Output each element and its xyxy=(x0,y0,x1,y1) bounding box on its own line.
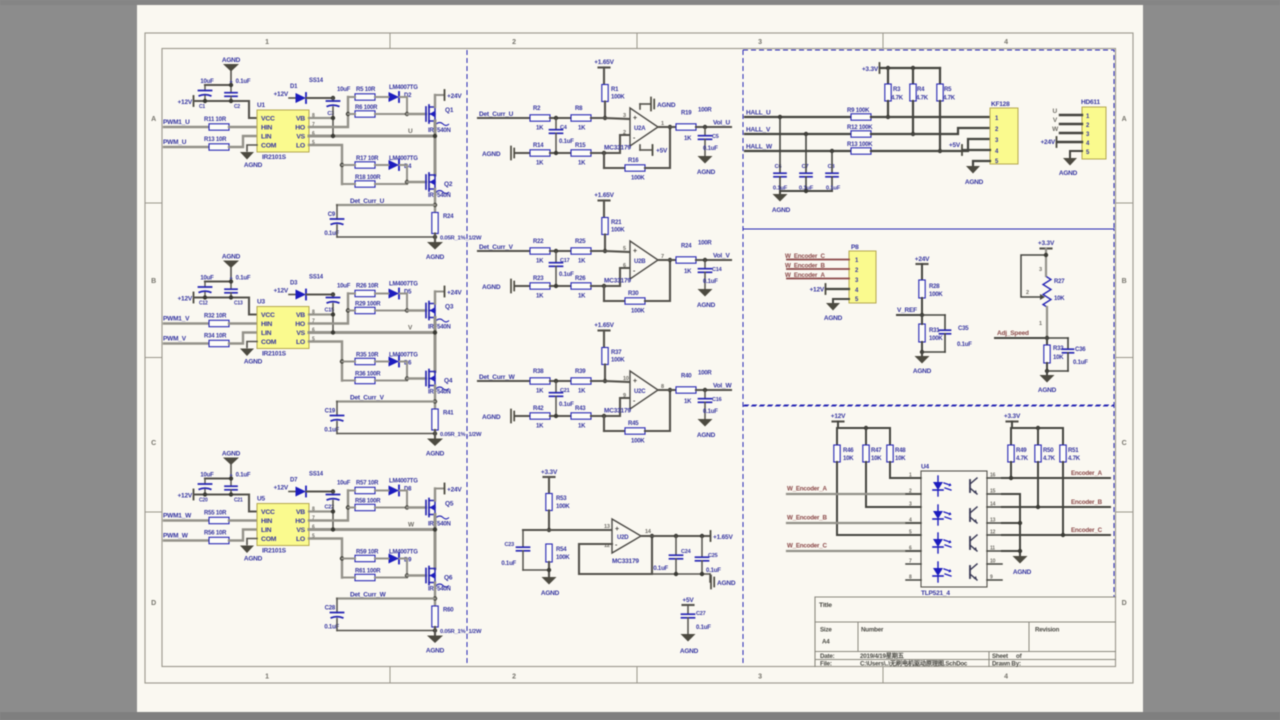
svg-text:15: 15 xyxy=(990,489,996,495)
wire (to op-amp +input) xyxy=(591,118,630,119)
svg-text:C1: C1 xyxy=(199,104,205,110)
svg-text:PWM_W: PWM_W xyxy=(163,533,189,540)
diode D6 LM4007TG (low side) xyxy=(375,353,418,381)
capacitor C2 0.1uF xyxy=(225,79,251,110)
svg-text:+12V: +12V xyxy=(273,288,288,295)
svg-text:0.1uF: 0.1uF xyxy=(703,146,718,152)
svg-text:10K: 10K xyxy=(843,456,854,462)
wire (phase node VS) xyxy=(309,515,437,569)
resistor R51 4.7K xyxy=(1060,445,1081,462)
svg-text:Q3: Q3 xyxy=(445,304,454,311)
capacitor C27 0.1uF xyxy=(682,611,712,634)
svg-text:IRF540N: IRF540N xyxy=(428,390,451,396)
svg-text:2: 2 xyxy=(512,39,516,46)
title block text Title xyxy=(819,602,832,609)
svg-text:10uF: 10uF xyxy=(200,276,214,282)
wire (R48 to opto pin1) xyxy=(890,462,921,478)
svg-text:HIN: HIN xyxy=(261,518,272,525)
svg-text:+12V: +12V xyxy=(809,287,824,294)
capacitor C14 0.1uF (output filter) xyxy=(699,260,723,289)
power port +1.65V (bias R21) xyxy=(594,192,614,218)
resistor R55 10R xyxy=(204,511,229,524)
port AGND (cap return) xyxy=(711,576,736,589)
svg-text:R47: R47 xyxy=(871,448,882,454)
capacitor C15 10uF (bootstrap) xyxy=(325,284,351,314)
net label PWM_V xyxy=(163,336,187,343)
op-amp U2B MC33179 xyxy=(604,241,664,285)
wire (to Q high gate) xyxy=(407,113,426,115)
net label PWM_U xyxy=(163,139,187,146)
op-amp U2D MC33179 (buffer) xyxy=(604,519,652,565)
net label Vol_U xyxy=(713,120,730,127)
svg-text:10: 10 xyxy=(990,559,996,565)
wire (to LIN pin) xyxy=(229,530,257,541)
svg-text:VS: VS xyxy=(296,330,305,337)
svg-text:AGND: AGND xyxy=(913,368,932,375)
svg-text:C35: C35 xyxy=(958,326,969,332)
capacitor C25 0.1uF xyxy=(696,536,722,574)
svg-text:C4: C4 xyxy=(560,125,568,131)
transistor Q4 IRF540N (low side MOSFET) xyxy=(426,370,453,396)
svg-text:C14: C14 xyxy=(712,267,723,273)
title block text Number xyxy=(861,627,884,634)
wire (VB connection) xyxy=(309,107,335,136)
svg-text:C2: C2 xyxy=(234,104,240,110)
title block text Drawn By xyxy=(992,661,1021,668)
resistor R53 100K (divider top) xyxy=(546,494,571,533)
power port +24V xyxy=(435,484,462,501)
svg-text:U: U xyxy=(408,128,413,135)
svg-text:R4: R4 xyxy=(917,87,925,93)
svg-text:10uF: 10uF xyxy=(337,87,351,93)
transistor Q1 IRF540N (high side MOSFET) xyxy=(426,105,454,134)
svg-text:R14: R14 xyxy=(533,143,544,149)
svg-text:VB: VB xyxy=(296,509,305,516)
svg-text:AGND: AGND xyxy=(1013,569,1032,576)
svg-text:PWM1_U: PWM1_U xyxy=(163,119,190,126)
net label PWM1_U xyxy=(163,119,190,126)
port AGND (reference input) xyxy=(482,147,514,160)
svg-text:C16: C16 xyxy=(712,397,722,403)
ground (hall filter AGND) xyxy=(772,191,791,214)
svg-text:C5: C5 xyxy=(712,134,719,140)
svg-text:100K: 100K xyxy=(556,555,570,561)
ground (divider AGND) xyxy=(541,577,560,597)
svg-text:VB: VB xyxy=(296,312,305,319)
transistor Q3 IRF540N (high side MOSFET) xyxy=(426,302,454,331)
svg-text:100K: 100K xyxy=(631,439,645,445)
svg-text:1: 1 xyxy=(909,473,912,479)
wire (encoder B output row) xyxy=(1002,462,1110,509)
power port +12V (bootstrap) xyxy=(273,485,295,492)
svg-text:Revision: Revision xyxy=(1035,627,1060,634)
ground (output filter AGND) xyxy=(697,419,716,439)
svg-text:W_Encoder_C: W_Encoder_C xyxy=(787,543,827,550)
svg-text:R49: R49 xyxy=(1016,448,1027,454)
svg-text:+: + xyxy=(633,115,637,122)
wire (LO to gate network) xyxy=(309,145,344,184)
svg-text:+: + xyxy=(633,378,637,385)
svg-text:1: 1 xyxy=(1039,321,1042,327)
svg-text:4.7K: 4.7K xyxy=(1016,456,1029,462)
power port +12V (opto anode pullups) xyxy=(831,413,846,428)
svg-text:10uF: 10uF xyxy=(337,284,351,290)
wire (bootstrap node) xyxy=(307,96,336,100)
diode D9 LM4007TG (low side) xyxy=(375,550,418,578)
net label HALL_U xyxy=(746,110,771,117)
power port +3.3V (speed pot) xyxy=(1038,240,1055,276)
svg-text:8: 8 xyxy=(909,575,912,581)
svg-text:AGND: AGND xyxy=(697,169,716,176)
svg-text:U: U xyxy=(1053,108,1058,115)
svg-text:2: 2 xyxy=(623,130,626,136)
wire (to summing node) xyxy=(550,379,572,383)
svg-text:R43: R43 xyxy=(575,406,586,412)
svg-text:1K: 1K xyxy=(536,294,544,300)
svg-text:VS: VS xyxy=(296,134,305,141)
svg-text:0.1uF: 0.1uF xyxy=(236,276,251,282)
resistor R46 10K xyxy=(834,445,854,462)
wire (pot to adj node) xyxy=(1045,307,1049,340)
svg-text:R26: R26 xyxy=(575,276,586,282)
svg-text:4.7K: 4.7K xyxy=(1068,456,1081,462)
wire (low source to shunt) xyxy=(433,189,437,212)
capacitor C21 0.1uF (filter) xyxy=(550,381,575,416)
svg-text:PWM1_V: PWM1_V xyxy=(163,316,190,323)
svg-text:7: 7 xyxy=(909,559,912,565)
svg-text:10uF: 10uF xyxy=(200,473,214,479)
svg-text:1K: 1K xyxy=(578,161,586,167)
ground (hall connector AGND) xyxy=(965,161,990,186)
net label Vol_V xyxy=(713,253,730,260)
capacitor C28 0.1uF (sense filter) xyxy=(324,599,343,631)
svg-text:C21: C21 xyxy=(234,498,243,504)
wire (+12V opto rail) xyxy=(837,426,890,445)
svg-text:1K: 1K xyxy=(536,424,544,430)
svg-text:R3: R3 xyxy=(893,87,901,93)
resistor R48 10K xyxy=(887,445,906,462)
svg-text:+1.65V: +1.65V xyxy=(594,59,614,66)
net label PWM1_W xyxy=(163,513,192,520)
svg-text:LM4007TG: LM4007TG xyxy=(389,85,418,91)
resistor R13 10R xyxy=(204,137,229,150)
svg-text:LO: LO xyxy=(296,143,305,150)
title block text Revision xyxy=(1035,627,1060,634)
svg-text:AGND: AGND xyxy=(222,254,241,261)
wire (hall cap return rail) xyxy=(780,189,832,193)
svg-text:R36 100R: R36 100R xyxy=(355,372,381,378)
svg-text:VCC: VCC xyxy=(261,312,275,319)
power port +12V (bootstrap) xyxy=(273,91,295,98)
svg-text:10K: 10K xyxy=(1054,296,1065,302)
resistor R1 100K xyxy=(602,85,626,121)
svg-text:10uF: 10uF xyxy=(200,79,214,85)
svg-text:D: D xyxy=(1122,600,1127,607)
transistor Q6 IRF540N (low side MOSFET) xyxy=(426,567,453,593)
wire (bias top rail) xyxy=(205,477,231,479)
wire (+12V rail to VCC) xyxy=(194,476,257,511)
svg-text:2: 2 xyxy=(909,489,912,495)
svg-text:12: 12 xyxy=(990,530,996,536)
svg-text:C7: C7 xyxy=(802,164,809,170)
dashed border of encoder/speed region xyxy=(743,229,1114,405)
svg-text:MC33179: MC33179 xyxy=(604,408,631,415)
resistor R13 100K xyxy=(847,142,873,154)
svg-text:B: B xyxy=(1122,278,1127,285)
wire (reference row) xyxy=(516,285,530,287)
ground (vref AGND) xyxy=(913,352,932,375)
svg-text:100K: 100K xyxy=(631,176,645,182)
wire xyxy=(550,414,572,418)
capacitor C16 0.1uF (output filter) xyxy=(699,390,722,419)
svg-text:+12V: +12V xyxy=(273,91,288,98)
resistor R50 4.7K xyxy=(1035,445,1056,462)
ground (output filter AGND) xyxy=(697,156,716,176)
svg-text:11: 11 xyxy=(990,546,995,552)
resistor R45 100K (feedback) xyxy=(604,421,645,445)
wire (PWM input 2) xyxy=(164,539,209,541)
ground AGND (driver bias AGND) xyxy=(222,57,241,85)
wire (current sense tap) xyxy=(337,204,435,206)
svg-text:AGND: AGND xyxy=(541,590,560,597)
net label Adj_Speed xyxy=(995,330,1047,338)
wire (VB connection) xyxy=(309,304,335,333)
svg-text:AGND: AGND xyxy=(222,451,241,458)
wire (pot wiper loop) xyxy=(1021,253,1048,327)
svg-text:IRF540N: IRF540N xyxy=(428,193,451,199)
wire (to LIN pin) xyxy=(229,333,257,344)
svg-text:D: D xyxy=(151,600,156,607)
svg-text:R35 10R: R35 10R xyxy=(356,353,379,359)
wire (+12V rail to VCC) xyxy=(194,279,257,314)
svg-text:1K: 1K xyxy=(578,389,586,395)
svg-text:C12: C12 xyxy=(199,301,208,307)
resistor R16 100K (feedback) xyxy=(604,158,645,182)
ground AGND (driver bias AGND) xyxy=(222,451,241,479)
ground (COM pin AGND) xyxy=(240,145,263,169)
svg-text:100K: 100K xyxy=(631,309,645,315)
resistor R25 1K xyxy=(571,239,591,265)
svg-text:R27: R27 xyxy=(1054,279,1065,285)
diode D5 LM4007TG (high side) xyxy=(375,282,418,313)
power port +5V (op-amp V- pin 11) xyxy=(640,145,668,155)
capacitor C24 0.1uF xyxy=(653,536,691,574)
wire (LO to gate network) xyxy=(309,539,344,578)
svg-text:6: 6 xyxy=(909,546,912,552)
svg-text:4.7K: 4.7K xyxy=(891,96,904,102)
svg-text:R51: R51 xyxy=(1068,448,1079,454)
svg-text:AGND: AGND xyxy=(426,451,445,458)
svg-text:Title: Title xyxy=(819,602,832,609)
svg-text:LM4007TG: LM4007TG xyxy=(389,353,418,359)
svg-text:+12V: +12V xyxy=(831,413,846,420)
wire (low source to shunt) xyxy=(433,583,437,606)
wire (to HIN pin) xyxy=(229,126,257,128)
svg-text:Encoder_B: Encoder_B xyxy=(1071,499,1103,506)
wire (to op-amp -input) xyxy=(591,135,630,155)
svg-text:0.1uF: 0.1uF xyxy=(236,79,251,85)
svg-text:KF128: KF128 xyxy=(991,101,1010,108)
svg-text:R61 100R: R61 100R xyxy=(355,569,381,575)
net label Det_Curr_V xyxy=(350,395,385,402)
svg-text:HALL_W: HALL_W xyxy=(746,144,773,151)
wire (sense cap return) xyxy=(337,628,437,632)
svg-text:PWM_V: PWM_V xyxy=(163,336,187,343)
resistor R22 1K xyxy=(530,239,550,265)
svg-text:SS14: SS14 xyxy=(309,472,324,478)
resistor R57 10R (high side gate) xyxy=(348,481,379,494)
net label Encoder_B xyxy=(1071,499,1103,506)
svg-text:R2: R2 xyxy=(533,106,541,112)
net label W (phase wire) xyxy=(1052,126,1082,133)
wire (reference row) xyxy=(516,415,530,417)
svg-text:IRF540N: IRF540N xyxy=(428,522,451,528)
wire (output node) xyxy=(696,258,731,262)
svg-text:U2D: U2D xyxy=(617,535,629,541)
wire (output node) xyxy=(696,125,731,129)
capacitor C23 0.1uF xyxy=(501,530,529,570)
region divider dashed line between column 1 and 2 xyxy=(466,50,468,666)
dashed border of optocoupler region xyxy=(743,406,1114,597)
net label phase V xyxy=(408,325,413,332)
resistor R59 10R (low side gate) xyxy=(342,550,379,562)
net label Det_Curr_W xyxy=(350,592,387,599)
net label HALL_W xyxy=(746,144,773,151)
resistor R15 1K xyxy=(571,143,591,167)
resistor R26 1K xyxy=(571,276,591,300)
svg-text:R16: R16 xyxy=(628,158,639,164)
capacitor C19 0.1uF (sense filter) xyxy=(324,402,343,434)
svg-text:C25: C25 xyxy=(708,553,718,559)
wire (PWM input 1) xyxy=(164,519,209,521)
svg-text:HD611: HD611 xyxy=(1081,99,1100,106)
svg-text:PWM1_W: PWM1_W xyxy=(163,513,192,520)
svg-text:U3: U3 xyxy=(257,299,265,306)
wire (PWM input 2) xyxy=(164,146,209,148)
svg-text:R59 10R: R59 10R xyxy=(356,550,379,556)
svg-text:LM4007TG: LM4007TG xyxy=(389,282,418,288)
svg-text:Drawn By:: Drawn By: xyxy=(992,661,1021,668)
wire (HO to gate network) xyxy=(309,294,350,324)
svg-text:+5V: +5V xyxy=(949,142,961,149)
svg-text:0.1uF: 0.1uF xyxy=(501,561,516,567)
svg-text:R30: R30 xyxy=(628,291,639,297)
svg-text:SS14: SS14 xyxy=(309,78,324,84)
wire (to HIN pin) xyxy=(229,322,257,324)
net label W_Encoder_B xyxy=(785,263,849,270)
svg-text:100K: 100K xyxy=(611,228,625,234)
svg-text:1: 1 xyxy=(265,39,269,46)
svg-text:R13 10R: R13 10R xyxy=(204,137,227,143)
svg-text:C28: C28 xyxy=(325,606,336,612)
svg-text:R31: R31 xyxy=(929,328,940,334)
svg-text:0.1uF: 0.1uF xyxy=(706,568,721,574)
svg-text:+24V: +24V xyxy=(1040,139,1055,146)
svg-text:IRF540N: IRF540N xyxy=(428,587,451,593)
svg-text:AGND: AGND xyxy=(697,302,716,309)
svg-text:AGND: AGND xyxy=(717,580,736,587)
net label phase W xyxy=(408,522,415,529)
svg-text:C17: C17 xyxy=(560,258,570,264)
svg-text:C19: C19 xyxy=(325,409,336,415)
svg-text:Encoder_C: Encoder_C xyxy=(1071,527,1103,534)
net label Encoder_A xyxy=(1071,470,1103,477)
wire (feedback left leg) xyxy=(603,153,605,168)
svg-text:Vol_W: Vol_W xyxy=(713,383,732,390)
resistor R36 100R (low side gate) xyxy=(342,372,407,384)
wire (to summing node) xyxy=(550,116,572,120)
svg-text:14: 14 xyxy=(990,502,996,508)
svg-text:100K: 100K xyxy=(929,292,943,298)
op-amp U2C MC33179 xyxy=(604,371,664,415)
svg-text:IRF540N: IRF540N xyxy=(428,325,451,331)
dashed border of HALL sensor region xyxy=(743,50,1114,229)
wire (to op-amp +input) xyxy=(591,251,630,252)
net label PWM1_V xyxy=(163,316,190,323)
svg-text:+: + xyxy=(633,248,637,255)
resistor R9 100K xyxy=(847,108,871,120)
resistor R8 1K xyxy=(571,106,591,132)
capacitor C22 10uF (bootstrap) xyxy=(325,481,351,511)
power port +24V xyxy=(435,287,462,304)
wire (encoder A output row) xyxy=(1002,462,1110,480)
svg-text:AGND: AGND xyxy=(1059,170,1078,177)
capacitor C35 0.1uF (vref filter) xyxy=(922,315,972,352)
wire (+3.3V opto rail) xyxy=(1011,426,1063,445)
svg-text:R45: R45 xyxy=(628,421,639,427)
capacitor C36 0.1uF (speed filter) xyxy=(1047,338,1088,371)
svg-text:C36: C36 xyxy=(1075,347,1086,353)
svg-text:D3: D3 xyxy=(290,281,298,287)
svg-text:1K: 1K xyxy=(578,126,586,132)
svg-text:R22: R22 xyxy=(533,239,544,245)
svg-text:HO: HO xyxy=(295,321,305,328)
svg-text:R9 100K: R9 100K xyxy=(847,108,870,114)
svg-text:U1: U1 xyxy=(257,102,265,109)
power port +1.65V (output) xyxy=(711,531,734,541)
svg-text:VCC: VCC xyxy=(261,116,275,123)
wire (sense cap return) xyxy=(337,431,437,435)
capacitor C8 0.1uF (hall filter) xyxy=(826,151,841,192)
svg-text:R26 10R: R26 10R xyxy=(356,284,379,290)
svg-text:9: 9 xyxy=(623,393,626,399)
wire (hall V row) xyxy=(745,132,851,136)
capacitor C3 10uF (bootstrap) xyxy=(327,87,351,117)
svg-text:4: 4 xyxy=(1004,39,1008,46)
power port +24V (motor supply) xyxy=(1040,137,1082,147)
wire (VB connection) xyxy=(309,501,335,530)
wire (to Q low gate) xyxy=(407,181,426,183)
transistor Q2 IRF540N (low side MOSFET) xyxy=(426,173,453,199)
net label Det_Curr_V xyxy=(479,244,514,251)
power port +3.3V (opto output pullups) xyxy=(1004,413,1021,428)
svg-text:COM: COM xyxy=(261,143,277,150)
power port +1.65V (bias R1) xyxy=(594,59,614,85)
svg-text:R25: R25 xyxy=(575,239,586,245)
svg-text:R21: R21 xyxy=(611,220,622,226)
wire (to HIN pin) xyxy=(229,519,257,521)
wire (HO to gate network) xyxy=(309,97,350,127)
svg-text:1K: 1K xyxy=(536,259,544,265)
svg-text:R24: R24 xyxy=(443,214,454,220)
wire (op-amp output) xyxy=(658,126,676,128)
capacitor C7 0.1uF (hall filter) xyxy=(799,134,814,192)
svg-text:AGND: AGND xyxy=(482,284,501,291)
svg-text:U2B: U2B xyxy=(634,259,646,265)
svg-text:1K: 1K xyxy=(578,259,586,265)
net label W_Encoder_C (opto input) xyxy=(787,543,921,552)
svg-text:AGND: AGND xyxy=(244,556,263,563)
